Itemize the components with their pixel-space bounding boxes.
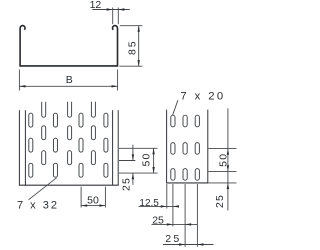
slot column c1 (29, 113, 33, 127)
svg-text:25: 25 (214, 194, 226, 208)
svg-text:7 x 32: 7 x 32 (17, 199, 59, 211)
channel profile U-section with hooked rims (20, 26, 117, 66)
rail right dimension arrows (227, 149, 229, 189)
dimension 25 (plate right, outside arrows) (132, 145, 134, 185)
tray bottom view bottom edge (19, 184, 119, 186)
slot column c2 (top slot cut open) (42, 102, 46, 117)
rail bottom edge (166, 182, 208, 184)
dimension 50 (plate right) (153, 148, 155, 173)
svg-text:85: 85 (127, 39, 139, 55)
svg-text:B: B (66, 74, 73, 86)
svg-text:12.5: 12.5 (139, 198, 159, 209)
dimension 12 arrows (107, 8, 125, 10)
svg-text:25: 25 (165, 233, 181, 245)
slots pattern 7x32 (29, 102, 108, 177)
dimension 12 lines (92, 8, 130, 25)
right-side extension lines of plate (119, 148, 158, 173)
dimension B arrows (19, 85, 117, 87)
svg-text:50: 50 (217, 153, 229, 167)
slot column c5 (79, 113, 83, 127)
svg-text:25: 25 (152, 215, 164, 227)
slot column c6 (top slot cut open) (91, 102, 95, 117)
rail right extension lines (208, 108, 236, 210)
svg-text:50: 50 (141, 152, 153, 166)
dimension 12.5 (139, 205, 180, 207)
svg-text:25: 25 (121, 177, 133, 191)
holes 7x20 (3x3) (171, 115, 200, 180)
dimension 25 (second) (163, 244, 214, 246)
dimension 85 arrows (138, 26, 140, 66)
slot column c7 (104, 113, 108, 127)
leader line 7x20 (173, 100, 178, 115)
svg-text:50: 50 (87, 195, 99, 207)
leader line 7x32 (29, 178, 57, 200)
slot column c3 (53, 113, 57, 127)
dimension 85 extension lines (119, 26, 142, 66)
svg-text:7 x 20: 7 x 20 (180, 90, 225, 102)
dimension 25 (first) (152, 223, 198, 225)
tray bottom view side lines (19, 110, 118, 185)
slot column c4 (top slot cut open) (68, 102, 72, 117)
rail bottom extension lines (167, 184, 198, 247)
dimension 50 below plate (81, 187, 105, 208)
rail side view edges (167, 110, 208, 183)
dimension B extension lines (19, 70, 117, 91)
